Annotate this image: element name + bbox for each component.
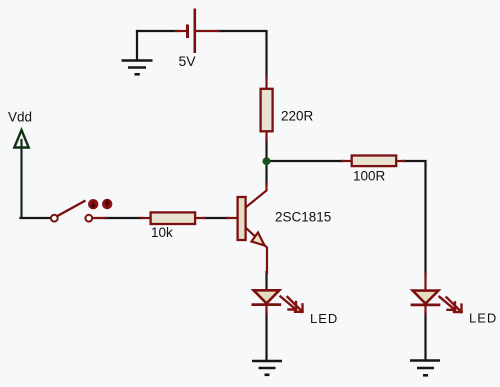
svg-text:100R: 100R [353,169,386,184]
svg-text:LED: LED [469,311,497,326]
svg-text:LED: LED [310,311,338,326]
svg-text:5V: 5V [179,53,197,69]
svg-text:10k: 10k [151,225,173,240]
svg-text:Vdd: Vdd [8,110,32,125]
svg-text:220R: 220R [281,109,314,124]
svg-text:2SC1815: 2SC1815 [275,210,331,225]
